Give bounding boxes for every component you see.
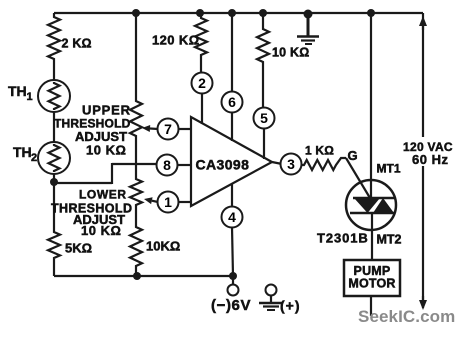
svg-text:UPPER: UPPER <box>82 103 131 118</box>
svg-text:TH: TH <box>8 83 27 99</box>
svg-text:5: 5 <box>260 110 268 126</box>
svg-text:10 KΩ: 10 KΩ <box>81 223 121 238</box>
svg-text:SeekIC.com: SeekIC.com <box>358 307 455 326</box>
svg-text:120 KΩ: 120 KΩ <box>152 33 200 48</box>
svg-text:TH: TH <box>13 144 32 160</box>
svg-text:MT2: MT2 <box>377 233 402 247</box>
svg-text:1: 1 <box>164 194 172 210</box>
svg-text:5KΩ: 5KΩ <box>65 241 92 256</box>
svg-text:CA3098: CA3098 <box>196 157 250 173</box>
svg-text:G: G <box>348 148 358 163</box>
svg-text:MT1: MT1 <box>377 162 401 176</box>
svg-text:2: 2 <box>198 75 206 91</box>
svg-text:3: 3 <box>287 156 295 172</box>
svg-text:T2301B: T2301B <box>317 231 369 246</box>
svg-text:(+): (+) <box>280 298 301 314</box>
svg-text:1: 1 <box>27 91 33 103</box>
svg-text:7: 7 <box>164 121 172 137</box>
svg-text:2 KΩ: 2 KΩ <box>62 37 92 51</box>
svg-text:8: 8 <box>163 157 171 173</box>
svg-text:4: 4 <box>228 209 236 225</box>
svg-text:10 KΩ: 10 KΩ <box>86 143 126 158</box>
svg-text:60 Hz: 60 Hz <box>412 152 448 167</box>
svg-text:MOTOR: MOTOR <box>348 277 395 291</box>
svg-text:6: 6 <box>228 94 236 110</box>
svg-text:LOWER: LOWER <box>79 188 127 202</box>
svg-text:2: 2 <box>31 152 37 164</box>
svg-text:(−)6V: (−)6V <box>211 297 251 314</box>
svg-text:10KΩ: 10KΩ <box>146 239 180 254</box>
svg-text:10 KΩ: 10 KΩ <box>272 46 309 60</box>
svg-text:1 KΩ: 1 KΩ <box>305 144 334 158</box>
